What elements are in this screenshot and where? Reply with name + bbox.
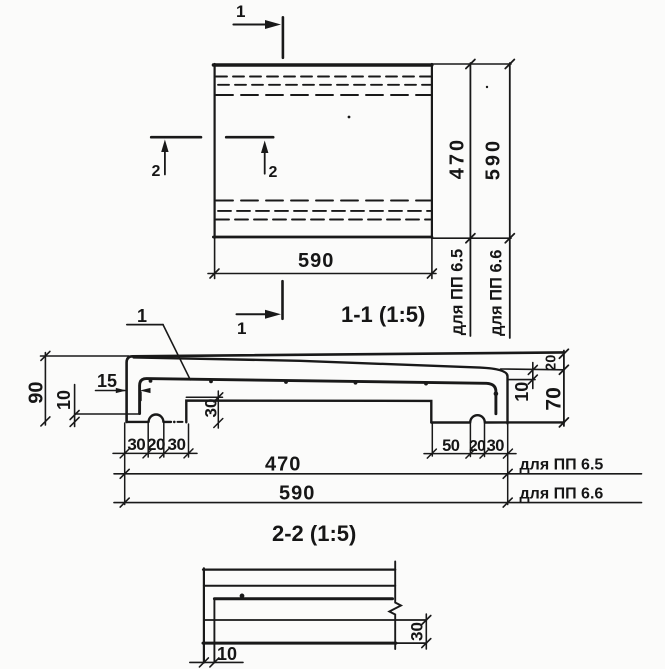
vertical dim line 470 (plan) [466,60,475,337]
svg-text:для ПП 6.5: для ПП 6.5 [449,249,467,335]
svg-text:50: 50 [442,437,460,455]
dashed rebar lines bottom group [216,201,431,220]
section cut mark 2 (left) [151,137,201,180]
svg-text:70: 70 [543,387,566,410]
svg-text:10: 10 [54,390,74,410]
dimension 15 (left cover) [96,388,151,401]
slab structural top (sloped line 2) [134,357,508,423]
dim line 30/20/30 left [113,449,197,458]
svg-text:470: 470 [447,137,469,179]
dimension 10 (detail) [190,658,243,667]
stray speck dots [348,116,351,119]
dimension 90 (left) [41,351,130,426]
svg-text:для ПП 6.5: для ПП 6.5 [520,457,604,474]
dimension 470 row (section) [114,469,642,478]
svg-text:10: 10 [217,644,237,664]
vertical dim line 590 (plan) [505,60,514,339]
svg-text:2: 2 [269,164,278,181]
detail top surface T1 [203,568,395,570]
dimension 30 (detail) [422,614,431,649]
section cut mark 1 (top) [233,2,283,58]
svg-text:470: 470 [265,454,301,476]
dimension 10 (right cover) [508,363,538,389]
svg-text:1-1 (1:5): 1-1 (1:5) [341,302,425,327]
slab inner opening: left rib inner face, flange underside, right rib inner face [186,401,431,423]
svg-text:20: 20 [469,438,485,455]
svg-text:30: 30 [487,437,505,455]
detail mesh T3 with leg [214,597,392,600]
svg-text:590: 590 [279,483,315,505]
dimension 590 under plan [208,239,436,279]
dimension 590 row (section) [114,498,642,507]
slab outer profile: left face + top surface [127,352,564,422]
line 2 extension to right dim [501,368,565,371]
dim texts 30 20 30 [127,435,185,454]
slab bottom: left rib with lifting recess [127,415,171,422]
svg-text:20: 20 [147,435,165,454]
svg-text:590: 590 [298,250,334,272]
section cut mark 1 (bottom) [237,281,283,338]
detail line T4 [204,619,426,621]
detail left face [203,568,205,662]
svg-text:1: 1 [137,306,147,326]
svg-text:1: 1 [236,2,245,21]
plan right extensions [432,64,511,238]
svg-text:2: 2 [152,163,161,180]
break line (zigzag) [389,562,401,650]
svg-text:1: 1 [237,319,246,338]
svg-text:10: 10 [512,382,532,402]
section cut mark 2 (right) [226,137,277,181]
svg-text:для ПП 6.6: для ПП 6.6 [520,486,604,503]
extension lines 50/20/30 (right rib) [432,423,507,505]
dimension 30 (left rib height) [186,391,223,428]
svg-text:30: 30 [168,435,186,454]
dim line 50/20/30 right [424,449,516,458]
detail bottom T5 [203,642,396,645]
svg-text:30: 30 [127,435,145,454]
dimension 10 (left, mesh end cover) [70,385,139,427]
dimension line 20/70 (right end) [559,349,568,427]
svg-text:20: 20 [544,355,560,371]
plan outline (section 1-1 body) [213,64,432,238]
svg-text:2-2 (1:5): 2-2 (1:5) [272,521,356,546]
svg-text:590: 590 [483,138,505,180]
dashed rebar lines top group [216,77,431,96]
mesh cross-bar dots [149,379,499,396]
svg-text:90: 90 [26,381,48,403]
svg-text:для ПП 6.6: для ПП 6.6 [487,250,505,336]
extension lines 30/20/30 (left rib) [125,423,189,505]
dim texts 50 20 30 [442,437,504,455]
svg-text:30: 30 [201,399,220,418]
rebar leader label 1 [127,306,190,380]
detail line T2 [204,585,395,587]
svg-text:30: 30 [407,622,426,641]
svg-text:15: 15 [97,371,117,391]
slab bottom: right rib with recess and extension [431,415,564,422]
reinforcement mesh (line 3) [140,379,496,414]
